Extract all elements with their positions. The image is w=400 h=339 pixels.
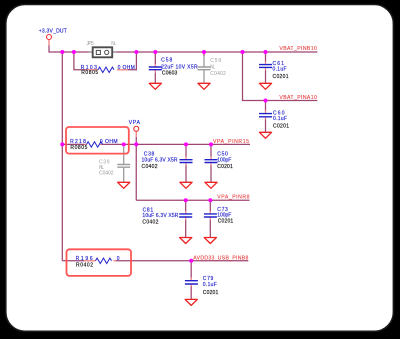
svg-text:C0402: C0402	[142, 164, 158, 170]
svg-text:100pF: 100pF	[217, 157, 231, 163]
svg-text:0 OHM: 0 OHM	[118, 65, 135, 71]
svg-text:C0402: C0402	[99, 171, 114, 177]
svg-text:C79: C79	[203, 276, 214, 282]
svg-text:VBAT_PINA10: VBAT_PINA10	[279, 95, 317, 101]
svg-text:JP5: JP5	[86, 41, 94, 47]
svg-text:VPA: VPA	[129, 120, 141, 126]
svg-text:C0201: C0201	[273, 124, 289, 130]
svg-text:22uF 10V X5R: 22uF 10V X5R	[161, 65, 198, 71]
svg-text:NL: NL	[210, 65, 215, 71]
svg-text:C0603: C0603	[162, 71, 178, 77]
svg-text:10uF 6.3V X5R: 10uF 6.3V X5R	[142, 157, 178, 163]
svg-text:C0402: C0402	[142, 219, 158, 225]
svg-text:0.1uF: 0.1uF	[273, 66, 287, 72]
svg-text:R0805: R0805	[70, 145, 87, 151]
svg-text:0: 0	[117, 256, 120, 262]
svg-text:C0201: C0201	[203, 290, 219, 296]
svg-text:C59: C59	[210, 58, 221, 64]
svg-text:C0201: C0201	[217, 164, 233, 170]
svg-text:+3.3V_DUT: +3.3V_DUT	[39, 29, 67, 35]
svg-text:VBAT_PINB10: VBAT_PINB10	[279, 46, 317, 52]
svg-text:NL: NL	[111, 41, 116, 47]
svg-text:AVDD33_USB_PINB8: AVDD33_USB_PINB8	[193, 255, 248, 261]
svg-text:0.1uF: 0.1uF	[203, 282, 217, 288]
svg-text:C0201: C0201	[218, 218, 234, 224]
svg-text:R0805: R0805	[81, 70, 98, 76]
svg-text:R0402: R0402	[76, 262, 93, 268]
svg-text:0 OHM: 0 OHM	[100, 139, 118, 145]
svg-text:VPA_PINR15: VPA_PINR15	[213, 139, 249, 145]
svg-text:C0402: C0402	[210, 71, 226, 77]
svg-text:C0201: C0201	[273, 74, 289, 80]
svg-text:10uF 6.3V X5R: 10uF 6.3V X5R	[142, 213, 178, 219]
svg-text:VPA_PINR8: VPA_PINR8	[217, 194, 249, 200]
svg-text:C58: C58	[161, 58, 172, 64]
svg-text:0.1uF: 0.1uF	[273, 116, 287, 122]
